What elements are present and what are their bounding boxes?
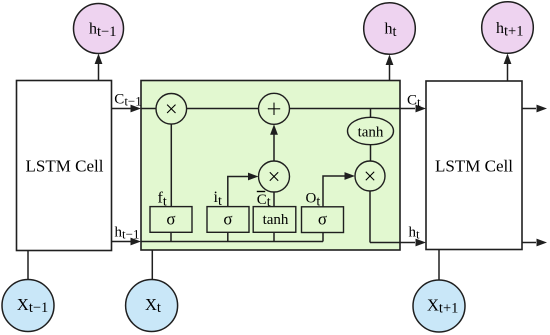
svg-text:ht: ht [409, 225, 421, 242]
wire it up and into middle multiply [228, 173, 259, 207]
wire Ct to right cell [400, 105, 426, 113]
wire ht-1 from left cell [112, 238, 142, 246]
svg-text:σ: σ [166, 209, 175, 228]
node ht-1 circle [74, 4, 124, 54]
label Cbar-t [257, 192, 271, 211]
stub sigma-i to bus [227, 232, 229, 241]
wire up to ht+1 circle [504, 54, 512, 82]
middle multiply node [259, 161, 290, 192]
wire ht out of green box [370, 242, 400, 244]
svg-text:ht: ht [385, 21, 397, 41]
wire middle multiply up into plus [270, 124, 278, 161]
wire right multiply down to ht line [369, 191, 371, 243]
wire down to Xt circle [151, 250, 153, 280]
svg-text:ht+1: ht+1 [496, 20, 523, 40]
node Xt-1 circle [2, 280, 54, 332]
svg-text:σ: σ [318, 210, 327, 229]
wire down to Xt-1 circle [27, 251, 29, 280]
wire up to ht circle [386, 55, 394, 81]
stub tanh box to bus [273, 232, 275, 241]
svg-text:Ct: Ct [407, 93, 421, 110]
node ht+1 circle [482, 2, 534, 54]
stub sigma-o to bus [322, 232, 324, 241]
green LSTM body [141, 81, 400, 251]
wire Ct line down to tanh ellipse [370, 109, 372, 118]
wire tanh box to middle multiply [273, 192, 275, 207]
wire ot up and into right multiply [323, 172, 355, 207]
LSTM cell box left [17, 81, 112, 251]
wire plus to right edge (Ct) [290, 108, 401, 110]
node ht circle [364, 3, 416, 55]
sigma box f [150, 207, 192, 233]
svg-text:Ct−1: Ct−1 [114, 91, 141, 108]
wire Ct-1 to multiply node [141, 108, 157, 110]
wire Ct-1 from left cell [112, 105, 142, 113]
wire ht-1 bus inside cell [141, 241, 323, 243]
right multiply node (output gate) [355, 161, 385, 191]
plus node (cell state sum) [259, 93, 290, 124]
wire ht into right cell [400, 239, 426, 247]
LSTM cell box right [426, 81, 522, 250]
svg-text:σ: σ [223, 209, 232, 228]
wire forget multiply down to sigma-f [170, 124, 172, 207]
tanh ellipse [348, 117, 394, 144]
svg-text:ht−1: ht−1 [89, 21, 116, 41]
svg-text:LSTM Cell: LSTM Cell [26, 157, 104, 176]
wire tanh ellipse down to right multiply [370, 145, 372, 161]
svg-text:Ct: Ct [257, 192, 271, 210]
svg-text:LSTM Cell: LSTM Cell [435, 157, 513, 176]
tanh box [253, 207, 296, 233]
wire down to Xt+1 circle [438, 250, 440, 281]
sigma box i [207, 207, 249, 233]
multiply node (forget gate) [156, 94, 187, 125]
svg-text:Ot: Ot [306, 191, 321, 210]
wire multiply to plus [187, 108, 259, 110]
wire Ct output of right cell [522, 105, 547, 113]
svg-text:ht−1: ht−1 [115, 225, 140, 242]
svg-text:tanh: tanh [358, 125, 384, 141]
svg-text:tanh: tanh [263, 212, 289, 228]
wire up to ht-1 circle [95, 54, 103, 81]
node Xt+1 circle [413, 280, 465, 332]
sigma box o [302, 207, 344, 233]
node Xt circle [126, 280, 178, 332]
stub sigma-f to bus [170, 232, 172, 241]
wire ht output of right cell [522, 239, 547, 247]
